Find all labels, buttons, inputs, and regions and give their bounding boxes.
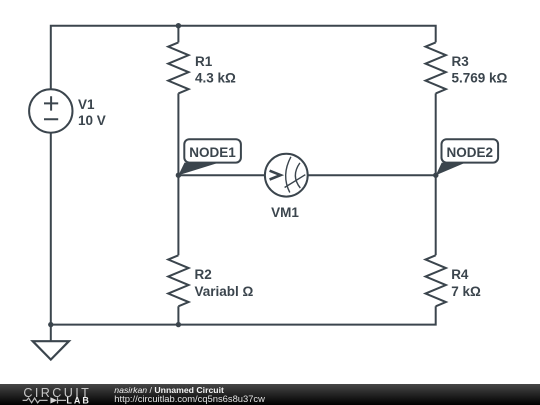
wire R4 top lead (435, 175, 437, 255)
svg-text:R2: R2 (195, 267, 212, 282)
resistor R2 (168, 255, 188, 306)
wire NODE1 to VM1 (178, 174, 265, 176)
svg-text:R3: R3 (452, 54, 470, 69)
svg-text:4.3 kΩ: 4.3 kΩ (195, 71, 236, 86)
svg-text:R4: R4 (451, 267, 469, 282)
wire VM1 to NODE2 (308, 174, 436, 176)
svg-text:7 kΩ: 7 kΩ (451, 284, 481, 299)
wire R2 bottom lead (177, 306, 179, 324)
svg-text:NODE2: NODE2 (447, 145, 494, 160)
voltage source V1 (29, 89, 72, 132)
resistor R3 (426, 42, 446, 93)
footer credit line (114, 385, 224, 395)
node NODE2 junction (433, 173, 438, 178)
footer url line (114, 393, 265, 404)
node ground junction (48, 322, 53, 327)
wire R1 bottom lead (177, 93, 179, 175)
svg-text:LAB: LAB (66, 395, 91, 405)
resistor R1 (168, 42, 188, 93)
NODE2 label box (442, 139, 499, 162)
svg-text:VM1: VM1 (271, 205, 299, 220)
logo resistor squiggle (23, 398, 48, 403)
svg-text:V1: V1 (78, 97, 95, 112)
node A junction top (176, 23, 181, 28)
wire R1 top lead (177, 26, 179, 43)
wire R3 bottom lead (435, 93, 437, 175)
NODE1 pointer (178, 163, 219, 176)
node B junction bottom (176, 322, 181, 327)
svg-text:10 V: 10 V (78, 113, 106, 128)
logo diode (50, 397, 57, 403)
NODE2 pointer (436, 163, 466, 176)
wire R2 top lead (177, 175, 179, 255)
svg-text:R1: R1 (195, 54, 213, 69)
footer bar (0, 384, 540, 405)
resistor R4 (426, 255, 446, 306)
wire top loop (51, 26, 436, 90)
voltmeter VM1 (265, 154, 308, 197)
ground (50, 325, 52, 342)
svg-text:NODE1: NODE1 (189, 145, 236, 160)
node NODE1 junction (176, 173, 181, 178)
svg-text:5.769 kΩ: 5.769 kΩ (452, 71, 508, 86)
svg-text:Variabl Ω: Variabl Ω (195, 284, 254, 299)
NODE1 label box (184, 139, 241, 162)
wire bottom loop (51, 133, 436, 325)
